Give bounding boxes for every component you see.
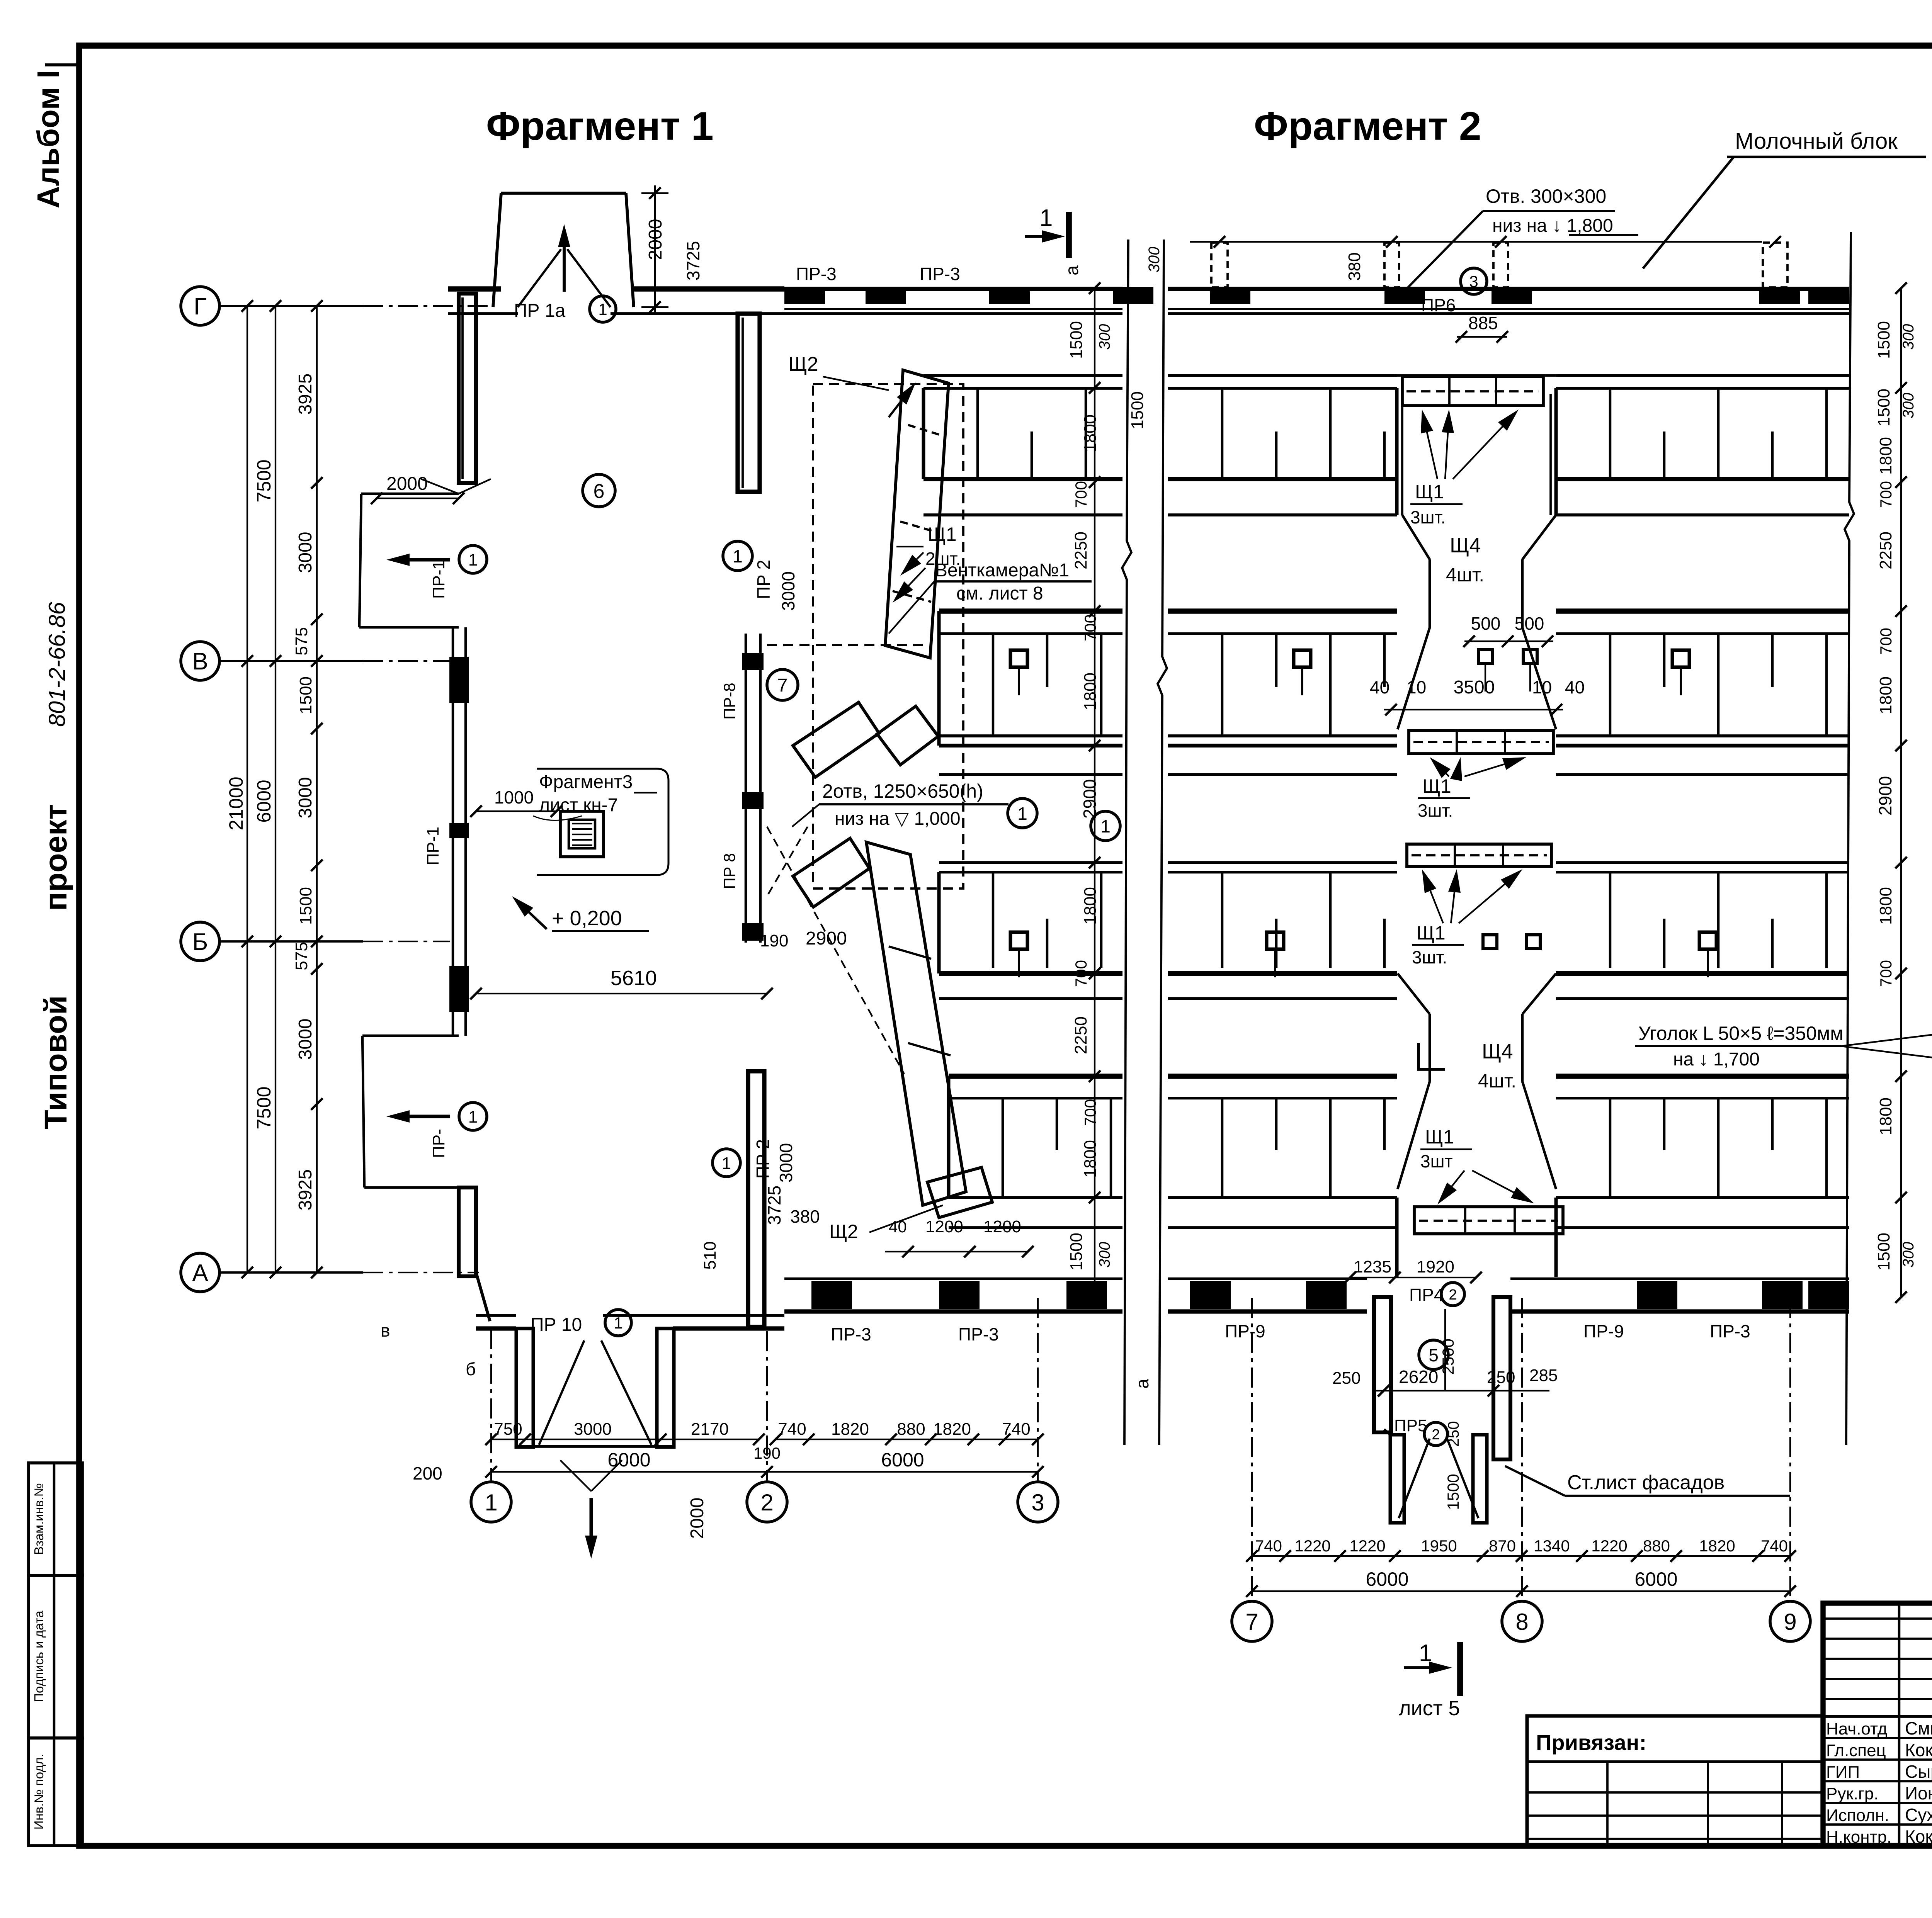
- svg-text:1: 1: [733, 546, 743, 566]
- svg-text:1500: 1500: [1067, 1233, 1086, 1271]
- svg-text:Щ1: Щ1: [1415, 481, 1444, 503]
- svg-text:700: 700: [1081, 1099, 1099, 1126]
- svg-text:870: 870: [1489, 1537, 1516, 1555]
- svg-text:300: 300: [1146, 247, 1163, 273]
- svg-text:2250: 2250: [1071, 532, 1090, 569]
- svg-text:40: 40: [1370, 677, 1389, 697]
- svg-text:1820: 1820: [933, 1420, 971, 1439]
- svg-text:1: 1: [468, 1108, 478, 1126]
- svg-text:2500: 2500: [1439, 1339, 1457, 1374]
- svg-text:Н.контр.: Н.контр.: [1826, 1828, 1891, 1847]
- svg-text:Щ4: Щ4: [1482, 1040, 1513, 1063]
- svg-text:1800: 1800: [1081, 887, 1100, 925]
- dim 5610: [470, 967, 773, 999]
- svg-text:6: 6: [594, 480, 605, 503]
- svg-text:Щ4: Щ4: [1450, 534, 1481, 557]
- svg-text:880: 880: [897, 1420, 925, 1439]
- left vertical dimension chains: [225, 300, 323, 1278]
- rotated dims left break column: [1128, 247, 1163, 429]
- bubble 7 interior: [767, 669, 798, 700]
- svg-text:740: 740: [1002, 1420, 1030, 1439]
- svg-text:10: 10: [1406, 677, 1426, 697]
- frag1 left wall lower segment + corner: [459, 1187, 490, 1321]
- svg-text:3шт.: 3шт.: [1410, 507, 1446, 527]
- svg-text:ПР5: ПР5: [1394, 1416, 1427, 1435]
- svg-text:3шт.: 3шт.: [1412, 947, 1447, 967]
- svg-text:+ 0,200: + 0,200: [552, 907, 622, 930]
- svg-text:1500: 1500: [1874, 389, 1893, 426]
- svg-text:6000: 6000: [1634, 1568, 1677, 1590]
- squares pair lower: [1483, 935, 1540, 949]
- svg-text:4шт.: 4шт.: [1478, 1070, 1516, 1092]
- central passage walls band A: [1397, 388, 1556, 1277]
- svg-text:3000: 3000: [295, 777, 316, 819]
- frag1 bottom wall: [476, 1315, 784, 1328]
- stall row band B: [1556, 611, 1849, 775]
- svg-text:ПР-3: ПР-3: [1710, 1321, 1750, 1341]
- stall row band A: [923, 375, 1122, 515]
- svg-text:250: 250: [1445, 1421, 1462, 1447]
- svg-text:а: а: [1132, 1379, 1152, 1389]
- svg-text:ПР-9: ПР-9: [1225, 1321, 1265, 1341]
- svg-text:3925: 3925: [295, 374, 316, 415]
- svg-text:40: 40: [889, 1218, 907, 1236]
- label Щ1 3шт #2: [1418, 757, 1526, 821]
- svg-text:ПР 1а: ПР 1а: [514, 301, 566, 321]
- svg-text:1820: 1820: [1699, 1537, 1735, 1555]
- svg-text:Молочный блок: Молочный блок: [1735, 129, 1898, 154]
- svg-text:2000: 2000: [687, 1498, 707, 1539]
- label Уголок: [1635, 1023, 1932, 1070]
- margin caption: Типовой проект 801-2-66.86: [38, 602, 73, 1130]
- svg-text:в: в: [381, 1320, 390, 1340]
- svg-text:Привязан:: Привязан:: [1536, 1730, 1646, 1755]
- svg-text:3500: 3500: [1454, 677, 1495, 698]
- title: Фрагмент 2: [1254, 104, 1481, 149]
- svg-text:1340: 1340: [1534, 1537, 1570, 1555]
- frag2 axis bubbles 7 8 9: [1232, 1298, 1272, 1641]
- svg-text:500: 500: [1515, 613, 1544, 634]
- svg-text:7500: 7500: [253, 459, 275, 502]
- svg-text:1800: 1800: [1876, 676, 1895, 714]
- svg-text:700: 700: [1072, 481, 1090, 508]
- svg-text:740: 740: [778, 1420, 806, 1439]
- svg-text:8: 8: [1515, 1609, 1528, 1635]
- svg-text:Кокрев: Кокрев: [1905, 1826, 1932, 1847]
- svg-text:2: 2: [1449, 1287, 1457, 1303]
- svg-text:21000: 21000: [225, 776, 247, 830]
- section mark 1 лист 5 (bottom): [1399, 1640, 1460, 1720]
- svg-text:1800: 1800: [1876, 437, 1895, 475]
- svg-text:885: 885: [1468, 313, 1498, 333]
- label Щ1 3шт top: [1410, 409, 1519, 527]
- svg-text:Щ1: Щ1: [928, 523, 957, 545]
- svg-text:1800: 1800: [1081, 415, 1100, 452]
- svg-text:700: 700: [1877, 628, 1895, 655]
- stall row band B: [1168, 611, 1397, 775]
- margin stamp boxes: [29, 1463, 82, 1846]
- svg-text:2900: 2900: [806, 928, 847, 949]
- svg-text:4шт.: 4шт.: [1446, 564, 1484, 586]
- svg-text:3000: 3000: [295, 532, 316, 573]
- svg-text:250: 250: [1332, 1369, 1361, 1388]
- label ПР-1 + bubble: [429, 545, 487, 599]
- svg-text:Щ1: Щ1: [1425, 1126, 1454, 1148]
- svg-text:Рук.гр.: Рук.гр.: [1826, 1784, 1879, 1803]
- room bubble 6: [583, 474, 615, 507]
- svg-text:1200: 1200: [983, 1217, 1021, 1236]
- svg-text:1235: 1235: [1354, 1257, 1391, 1276]
- funnel 1 (alley A-B): [1398, 515, 1556, 729]
- svg-text:380: 380: [1345, 252, 1364, 280]
- svg-text:2: 2: [760, 1490, 773, 1515]
- dim 40 10 3500 10 40: [1370, 677, 1585, 715]
- svg-text:2620: 2620: [1399, 1367, 1438, 1387]
- svg-text:1000: 1000: [494, 787, 534, 807]
- svg-text:300: 300: [1900, 393, 1917, 419]
- dim 500 500 + squares: [1463, 613, 1553, 691]
- label Щ1 3шт #3: [1412, 869, 1522, 967]
- svg-text:700: 700: [1877, 960, 1895, 987]
- frag1 bottom tambour: [516, 1328, 674, 1559]
- svg-text:1500: 1500: [1128, 391, 1147, 429]
- svg-text:1220: 1220: [1294, 1537, 1330, 1555]
- stall row band D: [1556, 1076, 1849, 1228]
- svg-text:Подпись и дата: Подпись и дата: [32, 1611, 46, 1702]
- svg-text:1: 1: [722, 1154, 731, 1173]
- svg-text:2900: 2900: [1875, 776, 1895, 815]
- svg-text:10: 10: [1532, 677, 1552, 697]
- panel Щ1 #2 (band B bottom): [1409, 731, 1553, 754]
- svg-text:Щ1: Щ1: [1422, 775, 1451, 797]
- dim 2000 (porch): [371, 474, 464, 504]
- interior wall ПР-8: [720, 634, 764, 943]
- svg-text:300: 300: [1900, 1242, 1917, 1268]
- svg-text:5: 5: [1429, 1345, 1439, 1365]
- svg-text:б: б: [466, 1359, 476, 1379]
- svg-text:575: 575: [292, 627, 311, 655]
- section mark 1 (top): [1025, 205, 1069, 258]
- svg-text:1800: 1800: [1876, 1097, 1895, 1135]
- stall row band C: [1556, 863, 1849, 999]
- svg-text:300: 300: [1096, 1242, 1113, 1268]
- label Ст.лист фасадов: [1505, 1466, 1790, 1496]
- drink squares frag1: [1010, 650, 1027, 977]
- svg-text:Сухова: Сухова: [1905, 1805, 1932, 1825]
- frag2 right rotated dim column: [1874, 282, 1917, 1303]
- svg-text:2250: 2250: [1876, 532, 1895, 569]
- svg-text:ПР-1: ПР-1: [423, 827, 442, 865]
- stall row band B: [939, 611, 1122, 775]
- svg-text:500: 500: [1471, 613, 1501, 634]
- svg-text:ПР-: ПР-: [429, 1129, 448, 1158]
- label Щ1 2шт (frag1): [893, 523, 961, 603]
- svg-text:а: а: [1062, 265, 1082, 275]
- svg-text:ПР4: ПР4: [1409, 1285, 1444, 1305]
- svg-text:1: 1: [1100, 816, 1111, 836]
- svg-text:1: 1: [614, 1314, 622, 1332]
- frag1 right rotated dim column: [1067, 282, 1113, 1303]
- window labels ПР-3 top frag1: [796, 264, 1082, 284]
- svg-text:3000: 3000: [295, 1019, 316, 1060]
- interior wall ПР2 upper: [738, 314, 760, 492]
- svg-text:низ на ↓ 1,800: низ на ↓ 1,800: [1492, 216, 1613, 236]
- label ПР10: [531, 1310, 631, 1336]
- svg-text:Щ2: Щ2: [788, 353, 818, 375]
- dim 1000: [470, 787, 562, 817]
- vent duct dashed enclosure: [767, 384, 963, 888]
- svg-text:ПР 2: ПР 2: [753, 560, 774, 599]
- svg-text:6000: 6000: [881, 1449, 924, 1471]
- svg-text:1500: 1500: [296, 887, 315, 925]
- stall row band C: [939, 863, 1122, 999]
- frag1 top wall: [448, 289, 784, 314]
- frag2 bottom tambour walls: [1374, 1297, 1510, 1523]
- svg-text:3925: 3925: [295, 1169, 316, 1211]
- svg-text:Венткамера№1: Венткамера№1: [935, 560, 1069, 581]
- svg-text:Смирнов: Смирнов: [1905, 1718, 1932, 1738]
- svg-text:700: 700: [1877, 481, 1895, 508]
- svg-text:1500: 1500: [1874, 1233, 1893, 1271]
- svg-text:3725: 3725: [683, 241, 703, 280]
- interior wall ПР2 lower: [748, 1071, 764, 1327]
- Привязан box: [1527, 1716, 1823, 1846]
- svg-text:750: 750: [494, 1420, 522, 1439]
- label 2отв + bubble: [792, 780, 1037, 829]
- labels 1 ПР2 3000 (lower): [713, 1139, 796, 1182]
- frag1 left wall upper segment: [459, 294, 476, 483]
- svg-text:3: 3: [1469, 272, 1478, 291]
- svg-text:Ионова: Ионова: [1905, 1783, 1932, 1803]
- svg-text:Взам.инв.№: Взам.инв.№: [32, 1483, 46, 1555]
- svg-text:3шт.: 3шт.: [1418, 800, 1453, 821]
- duct elbow cluster 2: [793, 838, 869, 907]
- label Фрагмент 3 / лист КН-7: [533, 772, 657, 821]
- svg-text:6000: 6000: [1366, 1568, 1408, 1590]
- stall row band D: [1168, 1076, 1397, 1228]
- svg-text:Б: Б: [192, 929, 208, 955]
- frag1 axis bubbles 1 2 3: [471, 1329, 511, 1522]
- svg-text:3000: 3000: [778, 571, 798, 611]
- chain 1235 1920: [1344, 1257, 1482, 1283]
- svg-text:ПР-3: ПР-3: [920, 264, 960, 284]
- svg-text:Исполн.: Исполн.: [1826, 1806, 1889, 1825]
- svg-text:380: 380: [790, 1206, 820, 1227]
- svg-text:575: 575: [292, 942, 311, 970]
- svg-text:300: 300: [1900, 324, 1917, 350]
- svg-text:на ↓ 1,700: на ↓ 1,700: [1673, 1049, 1760, 1070]
- svg-text:ГИП: ГИП: [1826, 1763, 1860, 1782]
- svg-text:ПР 2: ПР 2: [753, 1139, 773, 1179]
- svg-text:Фрагмент 2: Фрагмент 2: [1254, 104, 1481, 149]
- svg-text:3725: 3725: [764, 1186, 784, 1225]
- stall row band A: [1556, 375, 1849, 515]
- label Венткамера N1 см.лист 8: [889, 560, 1092, 634]
- svg-text:7: 7: [1245, 1609, 1258, 1635]
- svg-text:Фрагмент 1: Фрагмент 1: [486, 104, 714, 149]
- svg-text:3: 3: [1031, 1490, 1044, 1515]
- svg-text:2250: 2250: [1071, 1016, 1090, 1054]
- svg-text:7: 7: [777, 675, 788, 696]
- feed front line across passage: [1397, 374, 1556, 377]
- window labels bottom frag1: [831, 1324, 1152, 1389]
- svg-text:ПР-8: ПР-8: [720, 683, 738, 720]
- svg-text:ПР-1: ПР-1: [429, 560, 448, 599]
- label Щ2 upper: [788, 353, 889, 390]
- svg-text:1220: 1220: [1591, 1537, 1627, 1555]
- frag2 bottom dimension chains: [1246, 1537, 1796, 1597]
- svg-text:3шт: 3шт: [1420, 1151, 1453, 1171]
- panel Щ1 #3 (band C top): [1407, 844, 1551, 866]
- svg-text:1500: 1500: [1444, 1474, 1462, 1510]
- svg-text:1800: 1800: [1876, 887, 1895, 925]
- svg-text:Гл.спец: Гл.спец: [1826, 1741, 1886, 1760]
- svg-text:1: 1: [1017, 804, 1027, 824]
- svg-text:3000: 3000: [776, 1143, 796, 1182]
- left porch upper: [359, 479, 491, 627]
- svg-text:1500: 1500: [296, 676, 315, 714]
- duct Щ1 lower slanted: [866, 842, 992, 1218]
- break line between fragment 1 and 2 (left pair): [1122, 240, 1167, 1445]
- svg-text:6000: 6000: [607, 1449, 650, 1471]
- panel Щ1 bottom (band D): [1414, 1207, 1563, 1234]
- dashed diagonals frag1 lower: [767, 827, 904, 1074]
- svg-text:Типовой: Типовой: [38, 996, 73, 1130]
- duct Щ2 upper slanted: [885, 370, 949, 658]
- svg-text:3000: 3000: [574, 1420, 612, 1439]
- svg-text:Г: Г: [194, 293, 207, 320]
- svg-text:ПР 10: ПР 10: [531, 1315, 582, 1335]
- svg-text:190: 190: [760, 931, 788, 950]
- svg-text:880: 880: [1643, 1537, 1670, 1555]
- corner mark near funnel 2: [1418, 1043, 1445, 1069]
- bubble 1 on left break: [1091, 811, 1120, 841]
- stall row band D: [949, 1076, 1122, 1228]
- title: Фрагмент 1: [486, 104, 714, 149]
- svg-text:ПР6: ПР6: [1421, 295, 1456, 315]
- svg-text:700: 700: [1081, 614, 1099, 641]
- svg-text:Фрагмент3: Фрагмент3: [539, 772, 633, 792]
- stall row band C: [1168, 863, 1397, 999]
- label Щ4 4шт (upper): [1446, 534, 1484, 586]
- rotated dims 3725/190/380/510 frag1: [701, 928, 847, 1270]
- svg-text:лист 5: лист 5: [1399, 1697, 1460, 1720]
- svg-text:проект: проект: [38, 804, 73, 911]
- svg-text:ПР-3: ПР-3: [796, 264, 837, 284]
- level mark +0.200: [512, 896, 649, 931]
- svg-text:Щ1: Щ1: [1417, 922, 1446, 944]
- svg-text:300: 300: [1096, 324, 1113, 350]
- label Щ1 3шт bottom: [1420, 1126, 1534, 1204]
- svg-text:1800: 1800: [1081, 1140, 1100, 1178]
- frag1 bottom dimension chains: [485, 1420, 1044, 1478]
- axis bubble Г: [181, 287, 495, 325]
- svg-text:см. лист 8: см. лист 8: [956, 583, 1043, 604]
- svg-text:1: 1: [485, 1490, 497, 1515]
- stair / ramp detail: [537, 769, 668, 875]
- label ПР1а + door mark: [514, 296, 616, 322]
- small letters б/в + dim 200/2000: [381, 1320, 707, 1539]
- svg-text:5610: 5610: [611, 967, 657, 990]
- svg-text:510: 510: [701, 1241, 719, 1269]
- duct elbow cluster 1: [793, 702, 938, 777]
- svg-text:Уголок L 50×5 ℓ=350мм: Уголок L 50×5 ℓ=350мм: [1638, 1023, 1844, 1044]
- svg-text:ПР-3: ПР-3: [831, 1324, 871, 1344]
- svg-text:Альбом I: Альбом I: [31, 70, 65, 209]
- svg-text:700: 700: [1072, 960, 1090, 987]
- top dim line frag2: [1190, 236, 1781, 248]
- svg-text:1200: 1200: [925, 1217, 963, 1236]
- svg-text:А: А: [192, 1260, 208, 1286]
- svg-text:2000: 2000: [386, 474, 428, 494]
- svg-text:ПР-9: ПР-9: [1583, 1321, 1624, 1341]
- svg-text:низ на ▽ 1,000: низ на ▽ 1,000: [835, 809, 961, 829]
- break line between fragment 2 and 3: [1845, 216, 1932, 1445]
- svg-text:1500: 1500: [1874, 321, 1893, 359]
- stall row band A: [1168, 375, 1397, 515]
- svg-text:Отв. 300×300: Отв. 300×300: [1486, 185, 1606, 207]
- panel Щ1 top (band A): [1402, 377, 1543, 406]
- svg-text:1800: 1800: [1081, 673, 1100, 710]
- svg-text:ПР-3: ПР-3: [958, 1324, 999, 1344]
- svg-text:2170: 2170: [691, 1420, 729, 1439]
- label Щ2 lower + chain 40/1200/1200: [829, 1205, 943, 1242]
- svg-text:Щ2: Щ2: [829, 1221, 858, 1242]
- label: Молочный блок: [1643, 129, 1926, 268]
- svg-text:9: 9: [1784, 1609, 1796, 1635]
- frag1 top portal vestibule: [493, 193, 634, 307]
- svg-text:1500: 1500: [1067, 321, 1086, 359]
- svg-text:740: 740: [1255, 1537, 1282, 1555]
- label Отв.300x300 низ на 1.800: [1406, 185, 1638, 289]
- svg-text:2: 2: [1432, 1427, 1440, 1443]
- label Щ4 4шт (lower): [1478, 1040, 1516, 1092]
- funnel 2 (alley C-D): [1398, 973, 1556, 1189]
- axis bubble Б: [181, 922, 450, 961]
- svg-text:Сыркин: Сыркин: [1905, 1762, 1932, 1782]
- svg-text:Кокрев: Кокрев: [1905, 1740, 1932, 1760]
- svg-text:Инв.№ подл.: Инв.№ подл.: [32, 1754, 46, 1830]
- margin caption: Альбом I: [31, 65, 77, 208]
- svg-text:2отв, 1250×650(h): 2отв, 1250×650(h): [822, 780, 983, 802]
- frag1 left wall window segment: [423, 627, 469, 1036]
- bubble 3 + ПР6 + dim 885/380: [1345, 252, 1508, 343]
- svg-text:285: 285: [1529, 1366, 1558, 1385]
- signature rows: [1826, 1718, 1932, 1847]
- dashed wall channels above top wall: [1211, 243, 1787, 287]
- svg-text:6000: 6000: [253, 780, 275, 822]
- svg-text:250: 250: [1487, 1368, 1515, 1387]
- svg-text:1950: 1950: [1421, 1537, 1457, 1555]
- svg-text:1920: 1920: [1417, 1257, 1454, 1276]
- left porch lower: [362, 1036, 487, 1187]
- svg-text:200: 200: [413, 1463, 442, 1483]
- svg-text:7500: 7500: [253, 1086, 275, 1129]
- drink squares frag2: [1267, 650, 1716, 977]
- svg-text:В: В: [192, 648, 208, 675]
- svg-text:Нач.отд: Нач.отд: [1826, 1719, 1887, 1738]
- svg-text:1: 1: [468, 550, 478, 569]
- svg-text:1: 1: [1039, 205, 1053, 231]
- tambour labels: [1332, 1283, 1558, 1510]
- svg-text:1: 1: [598, 300, 607, 318]
- svg-text:1220: 1220: [1349, 1537, 1385, 1555]
- svg-text:801-2-66.86: 801-2-66.86: [44, 602, 70, 727]
- svg-text:ПР 8: ПР 8: [720, 853, 738, 889]
- dim 2000 (top portal): [641, 185, 668, 315]
- band end caps frag1: [923, 388, 949, 1198]
- svg-text:40: 40: [1565, 677, 1585, 697]
